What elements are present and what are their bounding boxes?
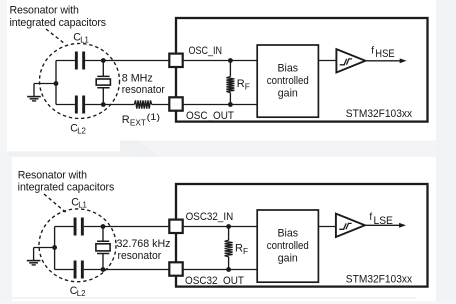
svg-text:OSC32_IN: OSC32_IN [186,211,234,223]
gap band between figures [137,141,436,157]
resistor RF [228,227,230,270]
svg-text:HSE: HSE [375,48,395,60]
svg-text:Bias: Bias [277,62,298,74]
resonator module outline (dashed ellipse) [40,44,120,119]
svg-text:L2: L2 [77,289,86,298]
crystal resonator (32.768 kHz) [97,241,109,253]
right page margin [436,0,456,304]
leader line (dashed) [46,29,65,44]
MCU box STM32F103xx [176,18,428,122]
wire: OSC_IN pin to bias box [183,226,258,228]
svg-text:integrated capacitors: integrated capacitors [10,17,107,29]
resonator module outline (dashed ellipse) [39,209,116,282]
wire: OSC_IN pin to bias box [183,60,258,62]
svg-text:OSC_IN: OSC_IN [189,45,223,57]
svg-text:R: R [237,78,245,90]
junction: RF bottom [226,267,231,272]
left page margin (top) [0,0,7,157]
wire: top rail (resonator to OSC_IN) [56,60,169,62]
output wire with arrow [365,60,400,62]
amplifier (Schmitt trigger) [336,214,365,237]
junction: RF bottom [228,102,233,107]
svg-text:(1): (1) [147,112,161,122]
svg-text:OSC32_OUT: OSC32_OUT [185,275,244,287]
svg-text:32.768 kHz: 32.768 kHz [117,238,171,250]
junction: crystal top [101,58,106,63]
svg-text:integrated capacitors: integrated capacitors [18,182,115,194]
bias controlled gain box [257,210,318,282]
svg-text:controlled: controlled [267,240,309,252]
hysteresis symbol [339,223,351,229]
ground symbol [27,96,41,98]
wire: bias box to amplifier [318,60,336,62]
svg-text:resonator: resonator [122,84,165,96]
svg-text:R: R [122,114,130,126]
junction: RF top [226,224,231,229]
wire: crystal branch [102,61,104,105]
junction: ground tap [54,81,59,86]
svg-text:STM32F103xx: STM32F103xx [346,273,413,285]
wire: bottom rail (resonator to OSC_OUT) [56,104,169,106]
svg-text:F: F [243,246,248,256]
svg-text:Bias: Bias [277,227,298,239]
pin OSC_OUT [169,97,182,110]
junction: ground tap [52,245,57,250]
bottom figure border line [12,297,416,298]
hysteresis symbol [340,59,352,65]
MCU box STM32F103xx [176,184,428,287]
wire: OSC_OUT pin to bias box [183,269,258,271]
svg-text:OSC_OUT: OSC_OUT [186,110,234,122]
wire: left vertical [55,61,57,105]
svg-text:L1: L1 [78,201,87,210]
svg-text:resonator: resonator [118,250,162,262]
wire to ground [34,248,55,261]
svg-text:R: R [235,243,243,255]
pin OSC_IN [169,54,182,67]
wire: left vertical [54,227,56,270]
bottom page strip [0,301,456,304]
junction: RF top [228,58,233,63]
wire: bias box to amplifier [318,226,336,228]
crystal resonator (8 MHz) [97,76,109,87]
wire: crystal branch [102,227,104,270]
svg-text:gain: gain [278,253,298,265]
svg-text:L2: L2 [77,127,86,136]
svg-text:L1: L1 [80,36,89,45]
svg-text:Resonator with: Resonator with [10,5,79,17]
svg-text:LSE: LSE [374,215,394,227]
ground symbol [27,260,41,262]
svg-text:EXT: EXT [130,118,146,128]
svg-text:f: f [369,212,372,223]
wire: top rail (resonator to OSC_IN) [55,226,170,228]
svg-text:Resonator with: Resonator with [18,169,87,181]
capacitor CL1 [74,218,77,236]
capacitor CL1 [75,52,78,70]
resistor REXT [134,100,151,108]
wire: bottom rail (resonator to OSC_OUT) [55,269,170,271]
svg-text:f: f [371,45,374,56]
wire: OSC_OUT pin to bias box [183,104,258,106]
junction: crystal top [101,224,106,229]
capacitor CL2 [74,261,77,279]
wire to ground [34,84,56,97]
output wire with arrow [365,224,400,226]
junction: crystal bottom [101,102,106,107]
bias controlled gain box [257,45,318,117]
svg-text:gain: gain [278,88,298,100]
svg-text:F: F [245,81,250,91]
pin OSC32_IN [169,220,182,233]
svg-text:8 MHz: 8 MHz [122,73,153,85]
amplifier (Schmitt trigger) [336,49,365,72]
resistor RF [229,61,231,105]
leader line (dashed) [44,194,67,213]
left page margin (bottom) [0,157,12,304]
capacitor CL2 [75,96,78,114]
pin OSC32_OUT [169,262,182,275]
svg-text:STM32F103xx: STM32F103xx [346,108,413,120]
junction: crystal bottom [101,267,106,272]
svg-text:controlled: controlled [267,75,309,87]
